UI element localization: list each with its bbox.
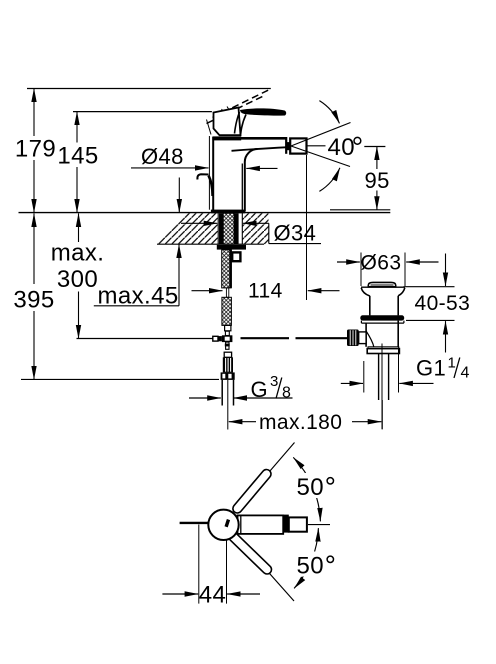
aerator dark ring (287, 142, 291, 150)
aerator end cap (290, 138, 306, 153)
svg-text:1: 1 (448, 355, 457, 372)
G1 1/4 extension left (363, 361, 365, 393)
max180 right extension (drain centerline) (381, 400, 383, 429)
handle bar lower outline (233, 536, 268, 570)
valve knurled body (223, 357, 233, 372)
hose clip on shank (232, 252, 240, 261)
nut window left (222, 374, 225, 379)
dim max45 upper arrow (178, 178, 180, 213)
svg-text:8: 8 (282, 385, 291, 402)
flange below O-ring right edge (403, 321, 405, 324)
O34 right arrow and leader (243, 222, 269, 224)
pop-up rod horizontal segment 1 (241, 337, 290, 339)
pop-up cross fitting body (222, 335, 233, 342)
knob ridge 3 (355, 330, 357, 345)
cross fitting white center (225, 337, 230, 341)
O63 extension left (360, 253, 362, 287)
center screw detail (225, 519, 231, 527)
tailpipe left wall (378, 354, 380, 401)
deck top line (19, 212, 391, 214)
pop-up rod horizontal segment 2 (296, 337, 348, 339)
ref line top (179 level) (27, 88, 271, 90)
threaded shank below flange (222, 250, 232, 288)
pop-up rod horizontal, thin left portion (77, 338, 214, 340)
svg-text:4: 4 (461, 365, 470, 382)
pop-up rod knob curve on body (209, 176, 213, 197)
dim 145 upper segment (76, 112, 78, 143)
label G3 slash (276, 378, 282, 399)
spout joint line (240, 515, 242, 534)
shank in deck: right wall (234, 213, 239, 244)
faucet centerline extension (227, 380, 229, 430)
drain: pop-up cap dome (368, 282, 395, 286)
dim 114 left arrow (192, 290, 223, 292)
spout corner arc and body right edge (245, 149, 258, 212)
svg-text:max.45: max.45 (98, 283, 179, 310)
svg-text:145: 145 (57, 143, 98, 170)
pop-up rod (plan) (180, 522, 209, 524)
svg-text:179: 179 (15, 136, 56, 163)
O-ring seal (360, 315, 404, 320)
shank dark edge (229, 250, 232, 288)
dim 44 left arrow (162, 593, 198, 595)
knob ridge 2 (352, 330, 354, 345)
svg-text:max.180: max.180 (259, 411, 342, 434)
knurl stripe 3 (230, 358, 232, 372)
label max.45 underline (94, 305, 179, 307)
tailpipe right wall (388, 354, 390, 401)
ref line 145 level (73, 111, 212, 113)
svg-text:3: 3 (270, 373, 279, 390)
40deg upper arc arrow (319, 101, 339, 124)
dim 44 right arrow (227, 593, 260, 595)
pop-up cross fitting: vertical stub (225, 331, 229, 335)
svg-text:50: 50 (297, 553, 325, 580)
spout end edge (285, 137, 287, 154)
40deg degree circle (354, 137, 361, 144)
G1 1/4 extension right (398, 348, 400, 393)
faucet front view (197, 89, 350, 213)
O34 label underline (269, 243, 321, 245)
body left edge (212, 137, 214, 212)
O63 right arrow (406, 261, 438, 263)
lever neck outline right (241, 115, 246, 135)
G1 1/4 right arrow (399, 382, 433, 384)
O48 right arrow (246, 167, 277, 169)
drain bottom flange upper line (368, 347, 399, 349)
deck bottom line (157, 243, 264, 245)
dim max300 upper segment (78, 213, 80, 242)
rod below cross (226, 342, 229, 349)
knob ridge 1 (349, 330, 351, 345)
O34 left arrow (181, 222, 217, 224)
ghost base sketch line left (207, 120, 212, 135)
svg-text:G: G (251, 377, 269, 402)
svg-text:44: 44 (199, 582, 227, 609)
spray ray upper (40 deg) (291, 123, 351, 147)
40deg leader right (364, 146, 385, 148)
50deg lower degree circle (327, 556, 333, 562)
handle bar upper outline (237, 474, 266, 509)
knurl stripe 2 (227, 358, 229, 372)
svg-text:Ø63: Ø63 (361, 252, 402, 275)
50deg lower arc arrow (294, 528, 318, 588)
svg-text:395: 395 (13, 287, 54, 314)
flange below O-ring left edge (360, 321, 362, 324)
drain upper body left wall (369, 296, 371, 316)
dim 395 lower segment (33, 311, 35, 379)
shank tip (225, 325, 231, 330)
rod bulge (225, 344, 230, 347)
TOP VIEW (162, 443, 337, 609)
supply hose left (221, 380, 223, 406)
dim 179 lower segment (33, 160, 35, 213)
hole edge right (241, 213, 243, 244)
svg-text:Ø48: Ø48 (141, 144, 184, 169)
drain flare right side (398, 288, 405, 296)
label 50deg upper bg (293, 473, 337, 498)
dim 44 ext left (198, 525, 200, 604)
G3/8 left arrow (189, 397, 221, 399)
dim 114 extension line (spout tip) (306, 155, 308, 300)
shank in deck: threaded middle (223, 213, 234, 244)
drain lower body right wall (397, 321, 399, 347)
svg-text:50: 50 (297, 474, 325, 501)
ref line 395 bottom (21, 378, 219, 380)
handle base (cartridge housing) (214, 108, 241, 136)
dim max180 left arrow (229, 421, 256, 423)
spray ray lower (40 deg) (291, 146, 350, 167)
pop-up rod in gap (226, 288, 228, 297)
ghost handle raised (dashed) upper line (213, 89, 271, 118)
body-handle dark joint band (212, 136, 241, 140)
svg-text:max.: max. (51, 240, 105, 267)
shank in deck: left wall (219, 213, 223, 244)
dim 40-53 bottom ref line (406, 319, 455, 321)
nut window right (228, 374, 231, 379)
G3/8 right arrow with underline leader (233, 397, 292, 399)
handle bar upper fill (237, 474, 266, 509)
40deg leader left (307, 145, 326, 147)
lever handle blade (240, 108, 286, 115)
O63 extension right (404, 253, 406, 287)
50deg upper arc arrow (293, 457, 320, 521)
body circle (plan) (208, 510, 238, 540)
internal ball-joint curve (366, 331, 374, 347)
ghost base sketch diagonal 1 (222, 109, 237, 131)
drain flare left side (361, 288, 370, 296)
pop-up rod knob (front view) (197, 174, 208, 179)
spout bar (plan) (238, 515, 284, 534)
G1 1/4 left arrow (341, 382, 363, 384)
rod knob (knurled) (347, 330, 359, 347)
50deg ray upper (235, 443, 295, 512)
O63 left arrow (337, 261, 360, 263)
aerator cap (plan) (289, 517, 307, 531)
label G1 slash (454, 358, 460, 379)
connection hex nut (221, 372, 235, 380)
mounting hole clearance (218, 213, 242, 245)
svg-text:40-53: 40-53 (415, 292, 471, 315)
svg-text:300: 300 (57, 266, 98, 293)
dim 40-53 top ref line (404, 286, 455, 288)
O34 label box left edge (268, 223, 270, 243)
cross fitting left cap (213, 336, 218, 341)
drain centerline (381, 344, 383, 430)
base plate (211, 210, 245, 214)
handle bar lower fill (233, 536, 268, 570)
dim max180 right arrow (352, 421, 381, 423)
drain flare top line (361, 286, 405, 288)
dim 95 upper segment (376, 147, 378, 170)
dim 40-53 top arrow (445, 254, 447, 287)
mounting flange under deck (217, 245, 246, 250)
dim 44 ext right (226, 540, 228, 604)
label 50deg lower bg (293, 552, 337, 577)
svg-text:G1: G1 (416, 356, 446, 381)
dim 40-53 bottom arrow (445, 321, 447, 352)
ghost handle raised (dashed) lower line (207, 95, 266, 124)
lever neck outline left (235, 112, 240, 134)
ref line 95 bottom (330, 209, 390, 211)
50deg upper degree circle (327, 478, 333, 484)
spout top edge (213, 137, 287, 140)
40deg lower arc arrow (319, 168, 340, 192)
knurl stripe 1 (225, 358, 227, 372)
supply hose right (233, 380, 235, 406)
dim 145 lower segment (76, 167, 78, 213)
dim 395 upper segment (33, 213, 35, 284)
body inner shading line (241, 164, 243, 211)
drain upper body right wall (397, 296, 399, 316)
countertop deck cross-section (hatched) (19, 213, 391, 245)
O48 leader arrow (131, 167, 209, 169)
dim max300 lower segment (78, 292, 80, 339)
dim 95 lower segment (376, 191, 378, 210)
dim 179 upper segment (33, 89, 35, 137)
valve top block (224, 352, 231, 357)
dome inner line (371, 284, 394, 286)
O48 extension line (208, 136, 210, 210)
50deg ray lower (234, 534, 294, 602)
svg-text:114: 114 (248, 280, 283, 303)
drain bottom flange lower ring (367, 349, 399, 354)
cross fitting left block (218, 336, 222, 341)
knob neck (359, 332, 366, 344)
svg-text:95: 95 (365, 168, 390, 193)
centerline stub (308, 524, 330, 526)
drain lower body left wall (365, 323, 367, 347)
svg-text:40: 40 (328, 134, 356, 161)
flange bottom line (361, 322, 404, 324)
hole edge left (217, 213, 219, 244)
ghost base sketch diagonal 2 (227, 107, 241, 129)
dim max45 lower arrow (178, 244, 180, 305)
threaded shank lower part (222, 297, 232, 325)
svg-text:Ø34: Ø34 (274, 221, 317, 246)
dim 114 right arrow (308, 290, 340, 292)
spout underside (sloped waterway line) (232, 147, 286, 151)
aerator dark ring (plan) (283, 515, 289, 533)
